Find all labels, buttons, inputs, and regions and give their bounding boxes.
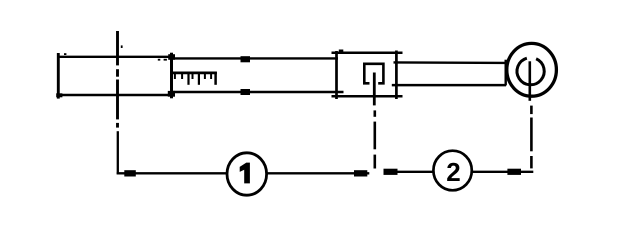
dimension 1 extension line (left) bbox=[117, 131, 119, 174]
shaft top line bbox=[394, 61, 507, 64]
shaft end cap at knob bbox=[505, 60, 507, 86]
dimension 2 left arrowhead bbox=[384, 169, 398, 175]
ruler short tick 3 bbox=[192, 74, 194, 80]
ruler short tick 4 bbox=[204, 74, 206, 80]
dimension 1 line left segment bbox=[117, 172, 227, 174]
ruler long end tick bbox=[214, 72, 217, 85]
dimension 1 left arrowhead bbox=[124, 170, 136, 176]
barrel bottom line (collar to block) bbox=[172, 91, 344, 93]
cap top serif bbox=[64, 53, 66, 55]
break mark on bottom line bbox=[241, 89, 251, 95]
knob outer circle bbox=[507, 43, 557, 96]
svg-text:2: 2 bbox=[446, 157, 460, 187]
break mark on top line bbox=[241, 56, 251, 62]
callout number 1 bbox=[240, 163, 250, 184]
collar (ferrule line) bbox=[170, 53, 173, 99]
dimension 2 right arrowhead bbox=[507, 169, 521, 175]
centerline speck artifact bbox=[121, 45, 123, 48]
callout balloon 1 bbox=[227, 153, 267, 195]
centerline of handle (dash-dot, vertical) bbox=[116, 31, 119, 128]
barrel bottom line (cap to collar) bbox=[57, 94, 173, 96]
socket stem (centerline start) bbox=[373, 73, 376, 106]
drive block left edge bbox=[335, 51, 338, 99]
right dashed centerline (below knob) bbox=[530, 106, 533, 169]
ruler short tick 1 bbox=[174, 74, 176, 80]
drive block top edge bbox=[332, 52, 403, 55]
barrel top line (collar to block) bbox=[172, 57, 339, 59]
drive block bottom edge bbox=[332, 95, 403, 98]
knob stem (centerline start) bbox=[528, 61, 531, 101]
cap bottom junction blob bbox=[56, 93, 62, 97]
drive block right edge bbox=[395, 51, 398, 100]
ruler long tick 1 bbox=[187, 74, 189, 85]
hidden-line dashes under top line bbox=[158, 59, 161, 61]
barrel top line (cap to collar) bbox=[57, 56, 175, 58]
shaft bottom line bbox=[392, 84, 506, 87]
ruler bar (graduated scale) bbox=[172, 72, 217, 75]
collar top junction blob bbox=[168, 54, 175, 60]
collar bottom junction blob bbox=[168, 91, 175, 97]
dimension 1 line right segment bbox=[267, 172, 369, 174]
dimension 2 line right segment bbox=[472, 171, 534, 173]
knob inner arc (open at top) bbox=[517, 58, 544, 85]
handle left end cap bbox=[57, 53, 60, 99]
callout balloon 2 bbox=[433, 151, 471, 191]
dimension 2 line left segment bbox=[384, 171, 434, 173]
dimension 1 right arrowhead bbox=[354, 170, 367, 176]
ruler long tick 2 bbox=[198, 74, 200, 85]
ruler short tick 2 bbox=[181, 74, 183, 80]
block top-left corner serif bbox=[339, 50, 344, 52]
square drive socket outline bbox=[364, 64, 383, 84]
mid dashed centerline (below block) bbox=[373, 110, 376, 168]
ruler short tick 5 bbox=[210, 74, 212, 80]
